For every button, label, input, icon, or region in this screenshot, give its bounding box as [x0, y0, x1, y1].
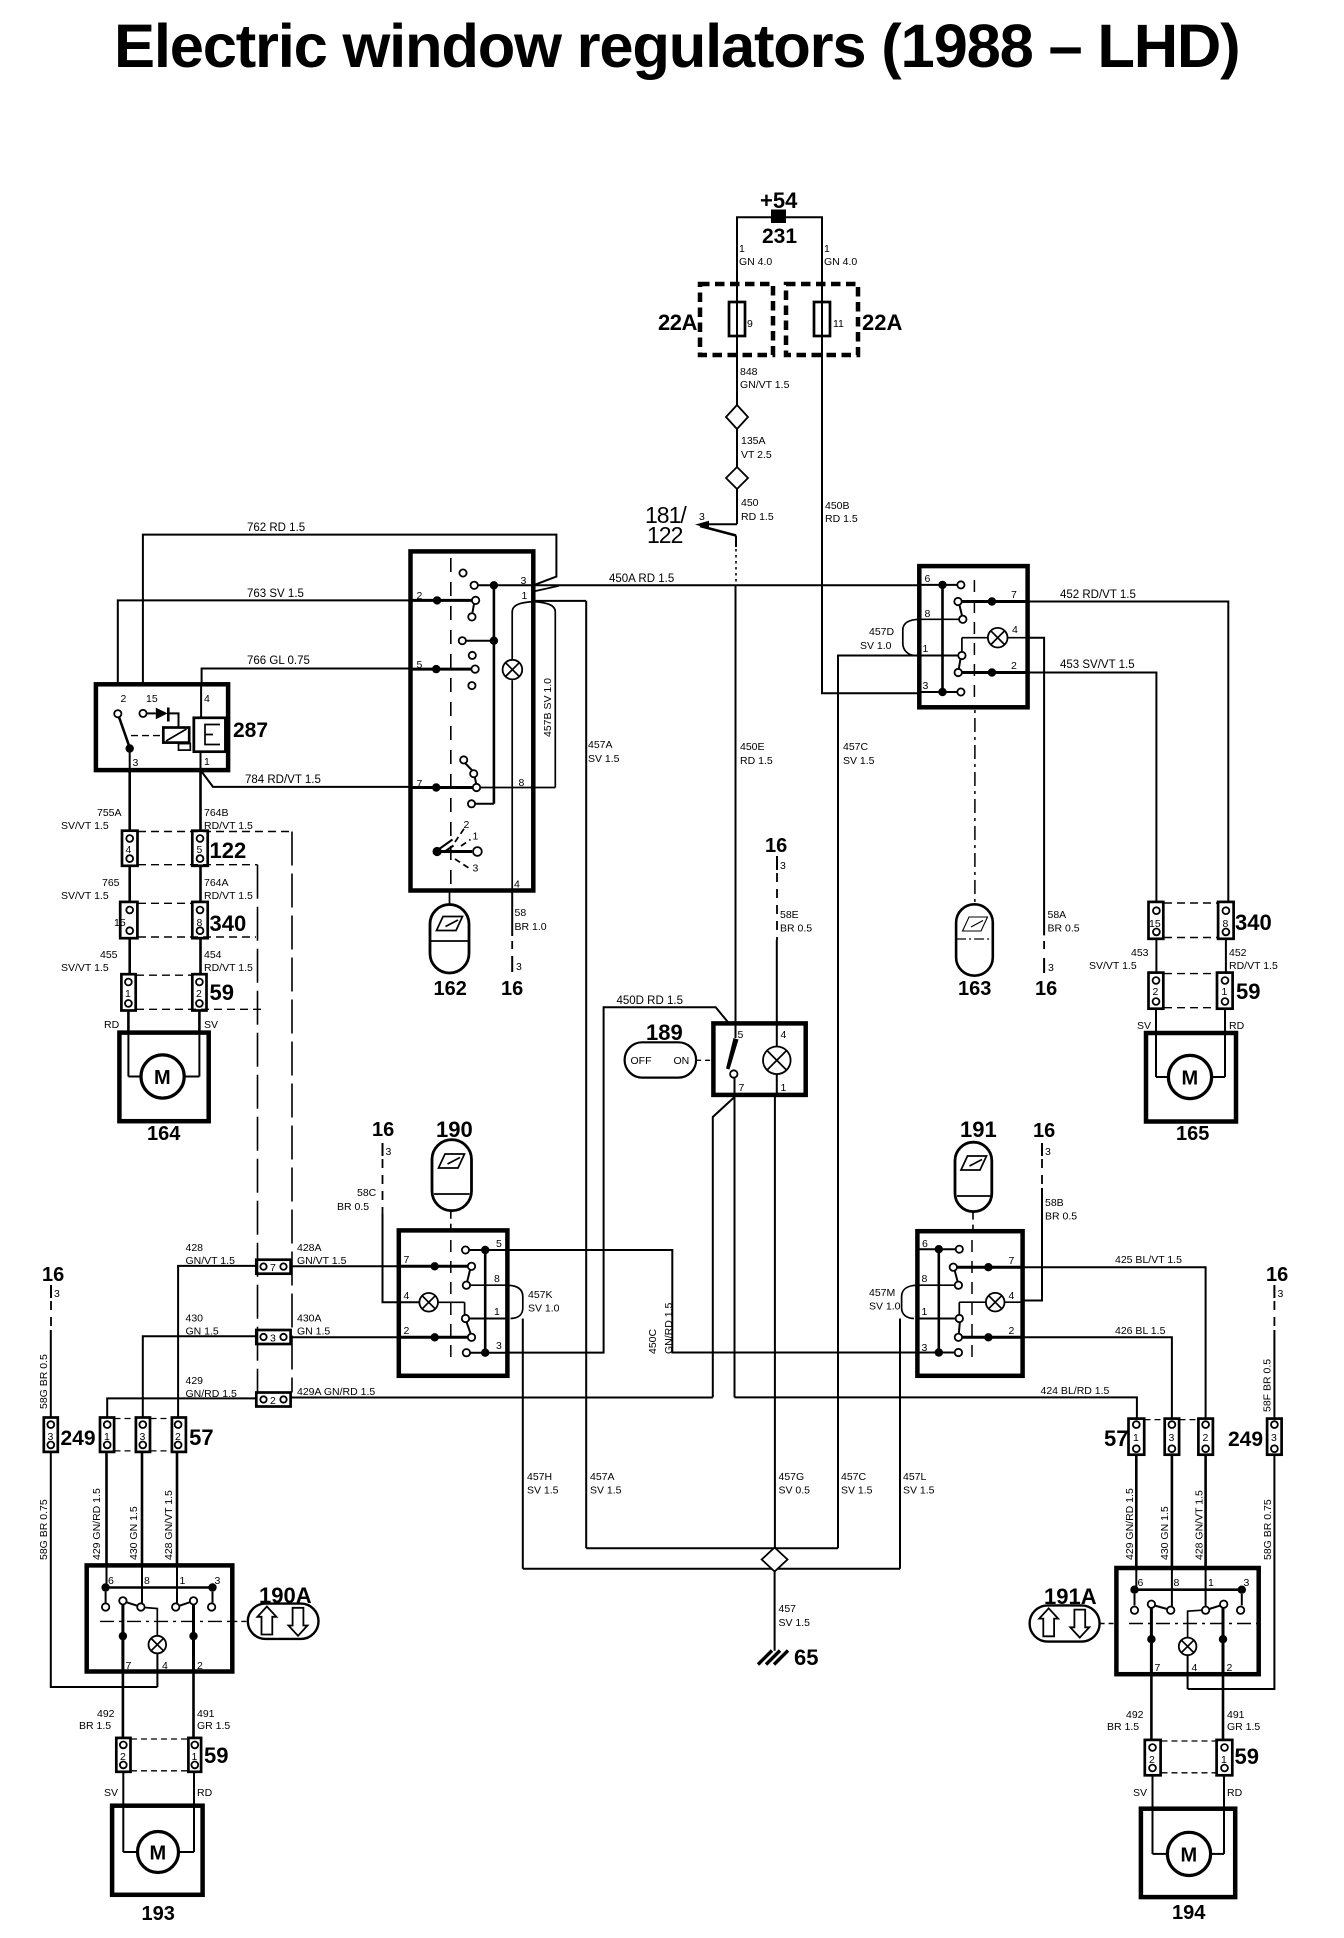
- wire 453 SV/VT 1.5 lower: [1089, 939, 1156, 973]
- 191A rocker right: [1202, 1568, 1228, 1674]
- switch 189 window lockout: [646, 1020, 806, 1095]
- wire to window lift symbol: [449, 891, 451, 905]
- svg-text:5: 5: [197, 844, 203, 856]
- dashed rocker axis: [971, 1240, 973, 1360]
- wire 457H SV 1.5: [523, 1319, 559, 1569]
- relay armature: [194, 686, 226, 770]
- 191A bottom pins: [1155, 1662, 1233, 1674]
- svg-text:450: 450: [741, 497, 759, 509]
- svg-text:58G BR 0.75: 58G BR 0.75: [1262, 1499, 1274, 1560]
- wire 189 pin7 to left bus: [713, 1097, 735, 1397]
- svg-text:SV 1.5: SV 1.5: [841, 1485, 873, 1497]
- lamp in 162: [503, 660, 523, 680]
- dashed rocker axis: [450, 1240, 452, 1360]
- pin 7 row: [954, 589, 1027, 623]
- svg-text:RD: RD: [197, 1787, 213, 1799]
- svg-text:4: 4: [1192, 1662, 1198, 1674]
- svg-text:450B: 450B: [825, 500, 850, 512]
- ground terminal 16 (58C): [337, 1119, 419, 1302]
- svg-text:BR 0.5: BR 0.5: [337, 1201, 369, 1213]
- relay pin 2: [121, 693, 127, 705]
- wire 457 SV 1.5: [775, 1572, 811, 1651]
- svg-text:429 GN/RD 1.5: 429 GN/RD 1.5: [1124, 1488, 1136, 1560]
- wire 457A lower label: [590, 1471, 622, 1497]
- wire 450 dotted continuation: [735, 536, 737, 584]
- wire VT 2.5: [736, 429, 738, 468]
- dashed link to symbol 163: [974, 710, 976, 904]
- svg-text:429 GN/RD 1.5: 429 GN/RD 1.5: [91, 1488, 103, 1560]
- svg-text:1: 1: [192, 1751, 198, 1763]
- wire 457C lower label: [841, 1471, 873, 1497]
- svg-text:3: 3: [923, 680, 929, 692]
- svg-text:RD 1.5: RD 1.5: [825, 513, 858, 525]
- svg-text:RD: RD: [1227, 1787, 1243, 1799]
- svg-text:M: M: [1182, 1068, 1199, 1090]
- svg-text:SV 1.5: SV 1.5: [843, 755, 875, 767]
- svg-text:766 GL 0.75: 766 GL 0.75: [247, 655, 310, 667]
- wire 430 GN 1.5 riser right: [1159, 1455, 1172, 1568]
- svg-text:163: 163: [958, 978, 991, 1000]
- svg-text:165: 165: [1176, 1123, 1209, 1145]
- wire RD motor194: [1224, 1775, 1243, 1808]
- svg-text:450D RD 1.5: 450D RD 1.5: [617, 995, 683, 1007]
- svg-text:15: 15: [146, 693, 158, 705]
- wire RD to motor 165: [1225, 1009, 1245, 1033]
- svg-text:1: 1: [180, 1575, 186, 1587]
- wire 491 GR 1.5: [194, 1672, 231, 1738]
- svg-text:457G: 457G: [779, 1471, 805, 1483]
- svg-text:7: 7: [270, 1262, 276, 1274]
- pin 1 row exit to 457A: [522, 590, 587, 602]
- svg-text:492: 492: [1126, 1709, 1144, 1721]
- wire SV to motor: [199, 1011, 218, 1033]
- svg-text:1: 1: [1221, 1754, 1227, 1766]
- svg-text:7: 7: [1155, 1662, 1161, 1674]
- capsule wire 457B SV 1.0: [512, 602, 555, 891]
- svg-text:GR 1.5: GR 1.5: [197, 1720, 230, 1732]
- switch 190 box: [399, 1230, 508, 1375]
- dashed rocker axis: [450, 558, 452, 886]
- svg-text:58G BR 0.5: 58G BR 0.5: [38, 1354, 50, 1409]
- svg-text:424 BL/RD 1.5: 424 BL/RD 1.5: [1041, 1385, 1110, 1397]
- wire 492 BR 1.5: [79, 1672, 123, 1738]
- svg-text:15: 15: [1149, 918, 1161, 930]
- svg-text:2: 2: [196, 988, 202, 1000]
- svg-text:GN 1.5: GN 1.5: [186, 1326, 219, 1338]
- wire 189 pin7 to right bus: [734, 1095, 736, 1398]
- wire 755A SV/VT 1.5: [61, 770, 130, 832]
- wire 452 RD/VT 1.5: [1028, 589, 1229, 902]
- svg-text:430 GN 1.5: 430 GN 1.5: [1159, 1506, 1171, 1560]
- relay pin 4: [204, 693, 210, 705]
- pin 8 row: [480, 777, 555, 789]
- wire 426 BL 1.5: [1023, 1325, 1172, 1419]
- pin 3 row: [463, 1340, 508, 1357]
- wire 450B RD 1.5: [822, 355, 919, 693]
- pin 1 row: [919, 643, 965, 669]
- svg-text:492: 492: [97, 1708, 115, 1720]
- svg-text:1: 1: [494, 1306, 500, 1318]
- svg-text:16: 16: [1035, 978, 1057, 1000]
- svg-text:SV: SV: [104, 1787, 118, 1799]
- pin 7 row: [411, 756, 481, 791]
- svg-text:3: 3: [48, 1431, 54, 1443]
- svg-text:RD 1.5: RD 1.5: [740, 755, 773, 767]
- wire 457A SV 1.5 vertical: [586, 601, 619, 1548]
- wire 457L SV 1.5: [900, 1319, 935, 1569]
- svg-text:GN 4.0: GN 4.0: [824, 256, 857, 268]
- svg-text:3: 3: [516, 961, 522, 973]
- svg-text:Electric window regulators (19: Electric window regulators (1988 – LHD): [114, 12, 1239, 81]
- svg-text:491: 491: [1227, 1709, 1245, 1721]
- 190A rocker right: [172, 1565, 198, 1671]
- svg-text:1: 1: [739, 243, 745, 255]
- svg-text:2: 2: [1227, 1662, 1233, 1674]
- wire 429 GN/RD 1.5 riser right: [1124, 1455, 1136, 1568]
- svg-text:3: 3: [473, 863, 479, 875]
- svg-text:764B: 764B: [204, 807, 229, 819]
- wire 58 BR 1.0 to ground 16: [512, 891, 547, 974]
- svg-text:340: 340: [1235, 910, 1272, 935]
- svg-text:15: 15: [114, 917, 126, 929]
- svg-text:457C: 457C: [841, 1471, 867, 1483]
- svg-text:1: 1: [1222, 986, 1228, 998]
- switch 191 box: [917, 1231, 1022, 1376]
- svg-text:+54: +54: [760, 188, 798, 213]
- wire 764A RD/VT 1.5: [201, 866, 253, 902]
- svg-text:1: 1: [781, 1082, 787, 1094]
- wire 766 GL 0.75: [202, 655, 411, 686]
- pin 8 row / capsule 457D SV 1.0: [860, 608, 959, 656]
- wire 425 BL/VT 1.5: [1023, 1254, 1206, 1419]
- pin 1 label right: [824, 243, 857, 268]
- connector 57 right: [1104, 1419, 1213, 1455]
- svg-text:59: 59: [1236, 979, 1260, 1004]
- 191A pins 6 8 1 3: [1138, 1577, 1250, 1589]
- internal bus 190: [484, 1250, 487, 1353]
- wire 457C SV 1.5: [838, 656, 919, 1549]
- switch 122/162 driver door window switch box: [411, 551, 534, 890]
- wire 848 GN/VT 1.5: [737, 355, 790, 406]
- svg-text:GN/RD 1.5: GN/RD 1.5: [186, 1388, 238, 1400]
- pin 2 row: [955, 660, 1028, 677]
- pin 3 row: [919, 680, 964, 696]
- svg-text:3: 3: [386, 1146, 392, 1158]
- svg-text:3: 3: [496, 1340, 502, 1352]
- svg-text:135A: 135A: [741, 435, 766, 447]
- wire 764B RD/VT 1.5: [201, 770, 253, 832]
- wire 450E RD 1.5: [736, 585, 773, 1023]
- svg-text:764A: 764A: [204, 877, 229, 889]
- window lift symbol 191: [955, 1117, 997, 1231]
- svg-text:SV 1.0: SV 1.0: [860, 640, 892, 652]
- svg-text:SV/VT 1.5: SV/VT 1.5: [1089, 960, 1137, 972]
- svg-text:2: 2: [120, 1751, 126, 1763]
- wire 428 GN/VT 1.5 riser: [163, 1452, 177, 1566]
- svg-text:453: 453: [1131, 947, 1149, 959]
- svg-text:4: 4: [162, 1660, 168, 1672]
- svg-text:4: 4: [404, 1290, 410, 1302]
- svg-text:8: 8: [197, 917, 203, 929]
- 190A rocker left: [119, 1565, 145, 1671]
- svg-text:SV: SV: [1137, 1020, 1151, 1032]
- connector 249 left: [44, 1418, 96, 1452]
- svg-text:1: 1: [1208, 1577, 1214, 1589]
- wire 430A GN 1.5: [291, 1313, 435, 1338]
- wire 429 GN/RD 1.5 riser: [91, 1452, 107, 1566]
- svg-text:GN/VT 1.5: GN/VT 1.5: [186, 1255, 236, 1267]
- svg-text:BR 0.5: BR 0.5: [780, 923, 812, 935]
- svg-text:425 BL/VT 1.5: 425 BL/VT 1.5: [1115, 1254, 1182, 1266]
- svg-text:755A: 755A: [97, 807, 122, 819]
- node +54 supply: [760, 188, 798, 248]
- wire 429A GN/RD 1.5 (left bus): [291, 1386, 713, 1398]
- svg-text:8: 8: [1174, 1577, 1180, 1589]
- svg-text:M: M: [154, 1067, 171, 1089]
- svg-text:428A: 428A: [297, 1242, 322, 1254]
- wire 457G SV 0.5: [775, 1095, 810, 1548]
- svg-text:58C: 58C: [357, 1187, 377, 1199]
- svg-text:4: 4: [126, 844, 132, 856]
- svg-text:491: 491: [197, 1708, 215, 1720]
- wire 784 RD/VT 1.5: [201, 770, 411, 787]
- 189 pin 5: [726, 1023, 744, 1077]
- connector 340 right: [1149, 902, 1272, 939]
- 190A lamp: [145, 1608, 167, 1688]
- svg-text:16: 16: [372, 1119, 394, 1141]
- svg-text:58G BR 0.75: 58G BR 0.75: [38, 1499, 50, 1560]
- svg-text:GR 1.5: GR 1.5: [1227, 1721, 1260, 1733]
- pin 6 row: [917, 1238, 963, 1253]
- connector 57 left: [100, 1418, 214, 1452]
- relay 287: [96, 684, 268, 770]
- wire 58A BR 0.5: [1028, 638, 1080, 974]
- svg-text:GN/VT 1.5: GN/VT 1.5: [297, 1255, 347, 1267]
- svg-text:RD/VT 1.5: RD/VT 1.5: [204, 962, 253, 974]
- arrows symbol 190A: [232, 1604, 318, 1639]
- svg-text:SV: SV: [204, 1019, 218, 1031]
- relay pin 1: [204, 756, 210, 768]
- svg-text:SV 1.0: SV 1.0: [869, 1301, 901, 1313]
- svg-text:16: 16: [501, 978, 523, 1000]
- svg-text:450E: 450E: [740, 741, 765, 753]
- svg-text:BR 0.5: BR 0.5: [1048, 923, 1080, 935]
- svg-text:1: 1: [923, 643, 929, 655]
- svg-text:340: 340: [210, 911, 247, 936]
- internal bus lower: [493, 641, 496, 804]
- relay pin 15: [146, 693, 158, 705]
- svg-text:190: 190: [436, 1117, 473, 1142]
- svg-text:784 RD/VT 1.5: 784 RD/VT 1.5: [245, 774, 321, 786]
- svg-text:457C: 457C: [843, 741, 869, 753]
- OFF/ON symbol: [625, 1042, 714, 1077]
- dashed rocker axis: [973, 580, 975, 700]
- svg-text:RD/VT 1.5: RD/VT 1.5: [204, 820, 253, 832]
- svg-text:249: 249: [1228, 1428, 1263, 1451]
- svg-text:2: 2: [404, 1325, 410, 1337]
- pin 5 row: [462, 1238, 508, 1254]
- connector 59 bottom left: [116, 1738, 228, 1772]
- svg-text:1: 1: [1133, 1432, 1139, 1444]
- 190A pins 6 8 1 3: [108, 1575, 221, 1587]
- wire RD to motor: [104, 1011, 128, 1033]
- svg-text:426 BL 1.5: 426 BL 1.5: [1115, 1325, 1166, 1337]
- pin 5 row: [411, 659, 479, 689]
- svg-text:2: 2: [175, 1431, 181, 1443]
- connector diamond to 450: [726, 467, 748, 489]
- arrows symbol 191A: [1030, 1605, 1117, 1641]
- fuse 22A left (fuse 9): [658, 284, 773, 355]
- svg-text:1: 1: [824, 243, 830, 255]
- pin 1 label left: [739, 243, 772, 268]
- svg-text:58F BR 0.5: 58F BR 0.5: [1262, 1359, 1274, 1412]
- svg-text:428: 428: [186, 1242, 204, 1254]
- 191A top bus: [1130, 1568, 1246, 1614]
- svg-text:193: 193: [142, 1903, 175, 1925]
- svg-text:3: 3: [133, 757, 139, 769]
- svg-text:455: 455: [100, 949, 118, 961]
- svg-text:3: 3: [270, 1333, 276, 1345]
- relay pin 3: [133, 757, 139, 769]
- svg-text:GN/RD 1.5: GN/RD 1.5: [663, 1302, 675, 1354]
- wire 429 GN/RD 1.5: [107, 1375, 256, 1418]
- contact top: [459, 569, 466, 576]
- svg-text:7: 7: [1011, 589, 1017, 601]
- svg-text:450A RD 1.5: 450A RD 1.5: [609, 573, 674, 585]
- svg-text:428 GN/VT 1.5: 428 GN/VT 1.5: [163, 1490, 175, 1560]
- mid contact row: [459, 637, 498, 660]
- ground terminal 16 (162): [501, 978, 523, 1000]
- svg-text:122: 122: [647, 522, 683, 548]
- svg-text:58: 58: [515, 907, 527, 919]
- svg-text:762 RD 1.5: 762 RD 1.5: [247, 522, 305, 534]
- pin 1 row: [917, 1306, 963, 1322]
- svg-text:1: 1: [204, 756, 210, 768]
- svg-text:5: 5: [496, 1238, 502, 1250]
- svg-text:430: 430: [186, 1313, 204, 1325]
- svg-text:2: 2: [1149, 1754, 1155, 1766]
- motor 194: [1141, 1809, 1235, 1924]
- svg-text:2: 2: [121, 693, 127, 705]
- svg-text:VT 2.5: VT 2.5: [741, 449, 772, 461]
- wire 763 SV 1.5: [118, 588, 411, 686]
- svg-text:457L: 457L: [903, 1471, 927, 1483]
- title: [114, 12, 1239, 81]
- wire 762 RD 1.5: [143, 522, 557, 686]
- svg-text:3: 3: [699, 511, 705, 523]
- svg-text:2: 2: [1203, 1432, 1209, 1444]
- svg-text:8: 8: [494, 1273, 500, 1285]
- svg-text:GN/VT 1.5: GN/VT 1.5: [740, 379, 790, 391]
- pin 2 row: [411, 590, 480, 621]
- svg-text:457D: 457D: [869, 626, 895, 638]
- lamp 190 / pin 4: [404, 1290, 465, 1315]
- svg-text:57: 57: [1104, 1426, 1128, 1451]
- svg-text:59: 59: [210, 980, 234, 1005]
- svg-text:429: 429: [186, 1375, 204, 1387]
- svg-text:848: 848: [740, 366, 758, 378]
- wire 492 BR 1.5 right: [1107, 1674, 1151, 1740]
- svg-text:2: 2: [1153, 986, 1159, 998]
- motor 193: [112, 1806, 203, 1925]
- svg-text:454: 454: [204, 949, 222, 961]
- svg-text:1: 1: [922, 1306, 928, 1318]
- pin 3 row: [471, 575, 534, 641]
- svg-text:1: 1: [522, 590, 528, 602]
- wire 454 RD/VT 1.5: [201, 938, 253, 974]
- wire 428 GN/VT 1.5: [178, 1242, 256, 1418]
- svg-text:RD/VT 1.5: RD/VT 1.5: [1229, 960, 1278, 972]
- svg-text:OFF: OFF: [631, 1055, 652, 1067]
- svg-text:3: 3: [1048, 962, 1054, 974]
- svg-text:457A: 457A: [588, 739, 613, 751]
- svg-text:RD: RD: [104, 1019, 120, 1031]
- wire SV to motor 165: [1137, 1009, 1156, 1033]
- svg-text:16: 16: [42, 1264, 64, 1286]
- 190A top bus: [101, 1565, 216, 1610]
- svg-text:11: 11: [833, 318, 844, 330]
- connector 249 right: [1228, 1419, 1282, 1455]
- svg-text:2: 2: [197, 1660, 203, 1672]
- svg-text:3: 3: [1045, 1146, 1051, 1158]
- svg-text:4: 4: [1012, 624, 1018, 636]
- svg-text:8: 8: [1223, 918, 1229, 930]
- svg-text:3: 3: [1169, 1432, 1175, 1444]
- svg-text:457B SV 1.0: 457B SV 1.0: [542, 678, 554, 737]
- svg-text:SV 1.5: SV 1.5: [903, 1485, 935, 1497]
- svg-text:1: 1: [473, 831, 479, 843]
- wire 58G BR 0.75 right: [1188, 1455, 1275, 1689]
- svg-text:428 GN/VT 1.5: 428 GN/VT 1.5: [1194, 1490, 1206, 1560]
- pin 8 row / capsule 457M SV 1.0: [869, 1273, 955, 1319]
- svg-text:3: 3: [1271, 1432, 1277, 1444]
- connector 340: [114, 902, 256, 938]
- 189 pin 7: [735, 1078, 745, 1095]
- svg-text:3: 3: [780, 860, 786, 872]
- lamp row pin 4: [962, 624, 1028, 652]
- svg-text:287: 287: [233, 719, 268, 742]
- svg-text:8: 8: [925, 608, 931, 620]
- wire 428A GN/VT 1.5: [291, 1242, 435, 1267]
- wire 428 GN/VT 1.5 riser right: [1194, 1455, 1206, 1568]
- pin 4: [514, 879, 520, 891]
- svg-text:2: 2: [1009, 1325, 1015, 1337]
- motor 164: [119, 1033, 208, 1145]
- 190A bottom pins: [126, 1660, 204, 1672]
- svg-text:7: 7: [404, 1254, 410, 1266]
- 191A rocker left: [1147, 1568, 1174, 1674]
- svg-text:22A: 22A: [658, 310, 697, 335]
- internal bus: [941, 585, 944, 692]
- svg-text:429A GN/RD 1.5: 429A GN/RD 1.5: [297, 1386, 375, 1398]
- wire 450D RD 1.5: [507, 995, 729, 1353]
- switch 191A box: [1044, 1568, 1259, 1674]
- lower contact to bus: [468, 800, 494, 807]
- svg-text:SV 1.5: SV 1.5: [590, 1485, 622, 1497]
- svg-text:58E: 58E: [780, 909, 799, 921]
- 189 lamp / pin 4 pin 1: [763, 1023, 791, 1095]
- wire 765 SV/VT 1.5: [61, 866, 130, 902]
- pin 6 row: [919, 573, 964, 589]
- wire 452 RD/VT 1.5 lower: [1226, 939, 1278, 973]
- wire supply bus: [737, 217, 822, 284]
- svg-text:2: 2: [1011, 660, 1017, 672]
- window lift symbol 190: [432, 1117, 473, 1230]
- pin 8 row / capsule 457K SV 1.0: [470, 1273, 560, 1319]
- wire RD motor193: [194, 1772, 213, 1806]
- svg-text:6: 6: [1138, 1577, 1144, 1589]
- svg-text:4: 4: [781, 1029, 787, 1041]
